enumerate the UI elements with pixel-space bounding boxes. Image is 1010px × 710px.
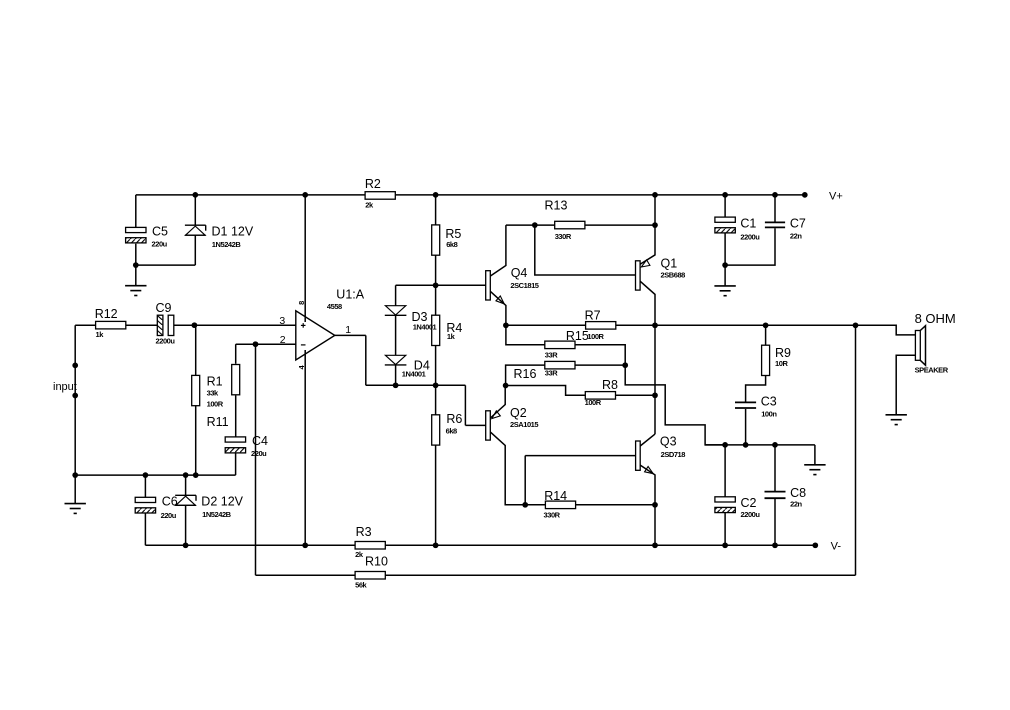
svg-text:C1: C1 <box>740 216 756 230</box>
wire V- regulated rail left <box>145 544 355 546</box>
svg-text:R14: R14 <box>544 489 567 503</box>
transistor Q4 emitter <box>490 291 506 325</box>
wire C4 bottom riser <box>235 453 237 475</box>
wire Q1 base link <box>535 225 636 275</box>
transistor Q1 emitter <box>640 195 655 264</box>
transistor Q3 emitter arrow <box>645 467 654 474</box>
svg-text:Q4: Q4 <box>511 266 528 280</box>
svg-text:1: 1 <box>345 324 351 336</box>
wire C1 ground stem <box>724 265 726 286</box>
svg-text:D1 12V: D1 12V <box>212 225 254 239</box>
wire R13 right to Q1 emitter column <box>585 224 655 226</box>
transistor Q1 emitter arrow <box>641 260 650 267</box>
ground (output node) <box>804 464 825 466</box>
wire R15 right leg <box>575 345 625 365</box>
resistor R7 <box>586 322 616 330</box>
wire C1-C7 bottom link <box>725 228 775 265</box>
ground (C1/C7) <box>714 285 735 287</box>
svg-text:input: input <box>53 381 77 393</box>
op-amp minus sign <box>301 344 306 346</box>
svg-text:R2: R2 <box>365 177 381 191</box>
svg-text:2200u: 2200u <box>740 233 760 242</box>
wire output line y=325 left <box>506 324 585 326</box>
svg-text:R16: R16 <box>514 367 537 381</box>
wire R10 line right <box>385 574 855 576</box>
svg-text:330R: 330R <box>544 510 561 519</box>
svg-text:Q2: Q2 <box>510 406 527 420</box>
junction C8 top <box>772 442 778 448</box>
junction D4 node <box>393 382 399 388</box>
capacitor C9 <box>157 315 163 335</box>
svg-text:1k: 1k <box>447 332 456 341</box>
svg-text:R1: R1 <box>207 375 223 389</box>
capacitor C8 <box>774 445 776 491</box>
wire op-amp output pin1 <box>335 334 366 336</box>
svg-text:1N5242B: 1N5242B <box>202 510 232 519</box>
capacitor C7 <box>774 195 776 222</box>
wire V- rail right of R3 <box>385 544 815 546</box>
svg-text:Q3: Q3 <box>660 435 677 449</box>
wire Q2 base link <box>465 424 485 426</box>
wire C9 to op-amp pin3 <box>174 324 296 326</box>
svg-text:1N4001: 1N4001 <box>413 323 437 332</box>
wire R8 left leg <box>506 386 585 396</box>
svg-text:D2 12V: D2 12V <box>201 495 243 509</box>
node input terminal dot lower <box>72 393 78 399</box>
svg-text:C9: C9 <box>156 301 172 315</box>
junction Q1 base node <box>532 222 538 228</box>
wire input ground stem <box>74 475 76 504</box>
transistor Q4 base bar <box>486 271 491 300</box>
svg-text:R8: R8 <box>602 378 618 392</box>
wire D3-D4 link <box>395 315 397 355</box>
wire C5-D1 bottom link <box>136 264 196 266</box>
svg-text:2k: 2k <box>365 201 374 210</box>
svg-text:R15: R15 <box>566 329 589 343</box>
capacitor C2 <box>724 445 726 497</box>
junction R4 node <box>433 382 439 388</box>
wire op-amp pin2 line <box>236 343 296 345</box>
junction dots on V+ rail <box>192 192 198 198</box>
wire Q2 base drop <box>464 385 466 425</box>
svg-text:C4: C4 <box>252 434 268 448</box>
resistor R14 <box>545 501 575 509</box>
svg-text:4558: 4558 <box>327 302 342 311</box>
svg-text:1k: 1k <box>96 330 105 339</box>
junction pin2/feedback node <box>253 341 259 347</box>
wire Q3 base riser <box>524 456 526 505</box>
svg-text:V-: V- <box>831 541 842 553</box>
svg-text:R6: R6 <box>446 412 462 426</box>
wire V+ rail right segment <box>395 194 805 196</box>
junction D2 top <box>183 472 189 478</box>
junction input node (C9/R1/pin3) <box>192 322 198 328</box>
wire R16 right leg <box>575 364 625 366</box>
wire feedback column to R10 <box>255 344 257 575</box>
svg-text:R7: R7 <box>585 308 601 322</box>
resistor R4 <box>435 285 437 315</box>
junction output/feedback node <box>853 322 859 328</box>
wire R8 right leg <box>616 394 656 396</box>
junction R15/R16 right node <box>622 362 628 368</box>
capacitor C3 <box>735 401 756 403</box>
wire output to speaker <box>856 325 916 335</box>
svg-text:10R: 10R <box>775 359 788 368</box>
svg-text:C7: C7 <box>790 216 806 230</box>
capacitor C4 <box>225 437 245 442</box>
svg-text:2200u: 2200u <box>741 510 761 519</box>
svg-text:220u: 220u <box>161 511 177 520</box>
svg-text:22n: 22n <box>790 499 802 508</box>
junction R13/Q1 emitter <box>652 222 658 228</box>
junction R1 bottom <box>193 472 199 478</box>
wire output-to-bias line y=385 <box>366 384 466 386</box>
node V- terminal <box>812 542 818 548</box>
resistor R2 <box>365 192 395 200</box>
svg-text:2SA1015: 2SA1015 <box>510 420 538 429</box>
svg-text:U1:A: U1:A <box>336 288 364 302</box>
junction R8/Q3 collector <box>652 392 658 398</box>
transistor Q2 emitter <box>490 386 505 419</box>
resistor R5 <box>435 195 437 225</box>
speaker cone <box>920 326 925 366</box>
wire op-amp pin8 supply stem <box>304 195 306 322</box>
svg-text:33k: 33k <box>207 389 219 398</box>
wire Q4 collector to R13 <box>506 224 555 226</box>
svg-text:R9: R9 <box>775 346 791 360</box>
resistor R16 <box>545 361 575 369</box>
node V+ terminal <box>802 192 808 198</box>
resistor R15 left leg <box>506 325 545 345</box>
transistor Q2 collector <box>490 432 525 505</box>
wire feedback riser from output <box>855 325 857 575</box>
svg-text:56k: 56k <box>355 580 367 589</box>
junction C6 top <box>143 472 149 478</box>
junction Q2 emitter node <box>503 383 509 389</box>
transistor Q3 base bar <box>636 441 641 470</box>
wire speaker bottom to ground <box>896 355 915 415</box>
wire bias line D3/Q4-base y=285 <box>396 284 486 286</box>
svg-text:100n: 100n <box>761 409 777 418</box>
transistor Q2 base bar <box>486 411 491 440</box>
net V+ rail top wire left segment <box>136 194 365 196</box>
junction Q4 emitter node <box>503 322 509 328</box>
op-amp plus sign <box>301 324 306 326</box>
op-amp U1:A triangle <box>296 311 335 360</box>
svg-text:C2: C2 <box>741 496 757 510</box>
svg-text:R10: R10 <box>365 554 388 568</box>
capacitor C5 <box>135 195 137 228</box>
wire R7 right <box>616 324 856 326</box>
svg-text:Q1: Q1 <box>661 257 678 271</box>
ground (C5/D1) <box>125 285 146 287</box>
junction C3 bottom <box>743 442 749 448</box>
wire R14 left stub <box>525 504 545 506</box>
diode D3 <box>385 306 405 315</box>
wire Q3 base link <box>525 455 635 457</box>
svg-text:2SD718: 2SD718 <box>661 450 686 459</box>
svg-text:8 OHM: 8 OHM <box>915 311 956 326</box>
svg-text:C5: C5 <box>152 225 168 239</box>
junction R5/R4 on bias line <box>433 282 439 288</box>
svg-text:V+: V+ <box>829 191 843 203</box>
svg-text:R3: R3 <box>356 525 372 539</box>
svg-text:100R: 100R <box>585 398 602 407</box>
ground (input) <box>65 503 86 505</box>
wire input line to pin3 <box>75 324 95 326</box>
junction C2 top <box>722 442 728 448</box>
wire op-amp pin4 supply stem <box>304 350 306 545</box>
resistor R6 <box>435 385 437 414</box>
wire D4 bottom stem <box>395 365 397 385</box>
svg-text:R11: R11 <box>207 415 229 429</box>
junction R14 right / Q3 emitter <box>652 502 658 508</box>
wire C3 bottom stem <box>745 409 747 445</box>
ground (speaker) <box>886 414 907 416</box>
junction C5/D1 bottom <box>133 262 139 268</box>
resistor R15 <box>545 341 575 349</box>
svg-text:R12: R12 <box>95 307 118 321</box>
node input terminal dot upper <box>72 363 78 369</box>
zener diode D2 <box>185 475 187 495</box>
transistor Q4 emitter arrow <box>496 296 504 304</box>
svg-text:SPEAKER: SPEAKER <box>915 366 949 375</box>
transistor Q2 emitter arrow <box>492 411 500 419</box>
zener diode D1 <box>194 195 196 225</box>
svg-text:6k8: 6k8 <box>446 240 457 249</box>
wire output elbow down <box>365 335 367 385</box>
svg-text:22n: 22n <box>790 232 802 241</box>
svg-text:330R: 330R <box>555 232 572 241</box>
resistor R16 left leg <box>506 365 545 385</box>
wire R14 right stub <box>576 504 655 506</box>
resistor R11 <box>235 344 237 364</box>
resistor R8 <box>585 392 615 400</box>
resistor R1 <box>195 325 197 376</box>
svg-text:100R: 100R <box>587 332 604 341</box>
wire R12 to C9 <box>126 324 157 326</box>
junction C1/C7 bottom <box>722 262 728 268</box>
wire D3 top corner stem <box>395 285 397 305</box>
svg-text:8: 8 <box>297 301 306 305</box>
svg-text:2200u: 2200u <box>156 337 176 346</box>
svg-text:6k8: 6k8 <box>446 427 457 436</box>
transistor Q1 collector <box>640 281 655 434</box>
svg-text:1N4001: 1N4001 <box>402 370 426 379</box>
transistor Q1 base bar <box>636 261 641 290</box>
svg-text:2SC1815: 2SC1815 <box>510 281 538 290</box>
junction Q1/Q3 collector on output line <box>652 322 658 328</box>
wire node ground stub <box>814 445 816 465</box>
transistor Q3 collector <box>640 434 655 446</box>
junction R14 left node <box>522 502 528 508</box>
wire input jack column <box>74 325 76 475</box>
capacitor C6 <box>144 475 146 497</box>
wire emitter-resistor node to output node staircase <box>625 365 725 445</box>
speaker body <box>915 331 920 361</box>
svg-text:2SB688: 2SB688 <box>661 271 686 280</box>
wire R10 line left <box>256 574 356 576</box>
svg-text:2k: 2k <box>355 550 364 559</box>
diode D4 <box>385 355 405 364</box>
wire R9 to C3 jog <box>746 375 766 402</box>
svg-text:100R: 100R <box>207 400 224 409</box>
junction R9 top <box>763 322 769 328</box>
svg-text:C6: C6 <box>162 495 178 509</box>
resistor R12 <box>96 321 126 329</box>
svg-text:C8: C8 <box>790 486 806 500</box>
svg-text:220u: 220u <box>251 449 267 458</box>
svg-text:33R: 33R <box>545 369 558 378</box>
transistor Q4 collector <box>490 225 506 276</box>
svg-text:R13: R13 <box>545 198 568 212</box>
transistor Q3 emitter <box>640 465 655 545</box>
wire ground bus y=475 <box>75 474 235 476</box>
junction input ground node <box>72 472 78 478</box>
resistor R10 <box>355 572 385 580</box>
svg-text:1N5242B: 1N5242B <box>212 240 242 249</box>
svg-text:C3: C3 <box>761 395 777 409</box>
svg-text:220u: 220u <box>152 240 168 249</box>
svg-text:33R: 33R <box>545 350 558 359</box>
wire C8 bottom stem <box>774 499 776 545</box>
wire C5 ground stem <box>135 265 137 286</box>
capacitor C1 <box>724 195 726 217</box>
resistor R13 <box>555 221 585 229</box>
resistor R9 <box>765 325 767 345</box>
wire zobel node line y=445 <box>705 444 815 446</box>
junction dots on V- rail <box>183 542 189 548</box>
resistor R3 <box>355 542 385 550</box>
